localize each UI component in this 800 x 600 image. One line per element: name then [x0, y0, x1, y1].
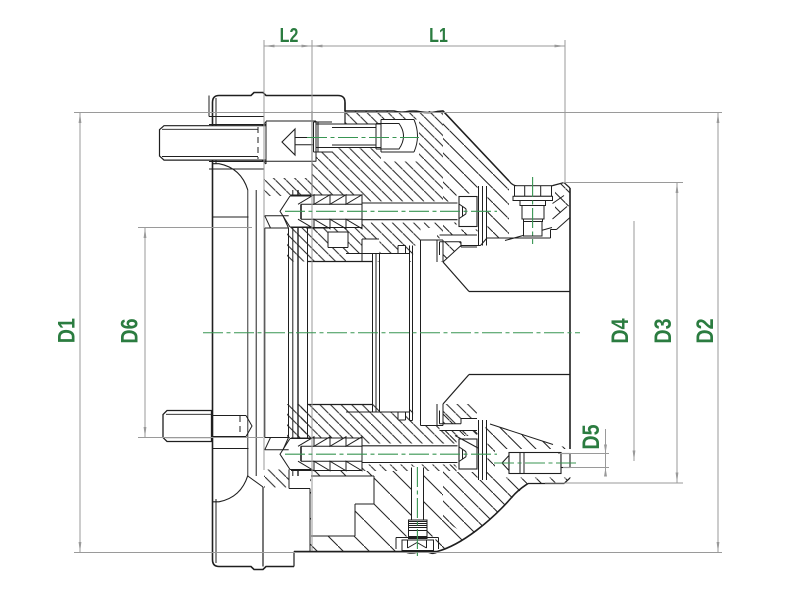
- svg-text:L2: L2: [280, 24, 299, 46]
- svg-text:D2: D2: [691, 318, 718, 343]
- svg-text:D4: D4: [606, 318, 633, 344]
- svg-text:D5: D5: [577, 424, 604, 449]
- svg-text:D1: D1: [53, 318, 80, 343]
- svg-text:L1: L1: [429, 24, 448, 46]
- svg-text:D3: D3: [649, 318, 676, 343]
- svg-text:D6: D6: [116, 318, 143, 343]
